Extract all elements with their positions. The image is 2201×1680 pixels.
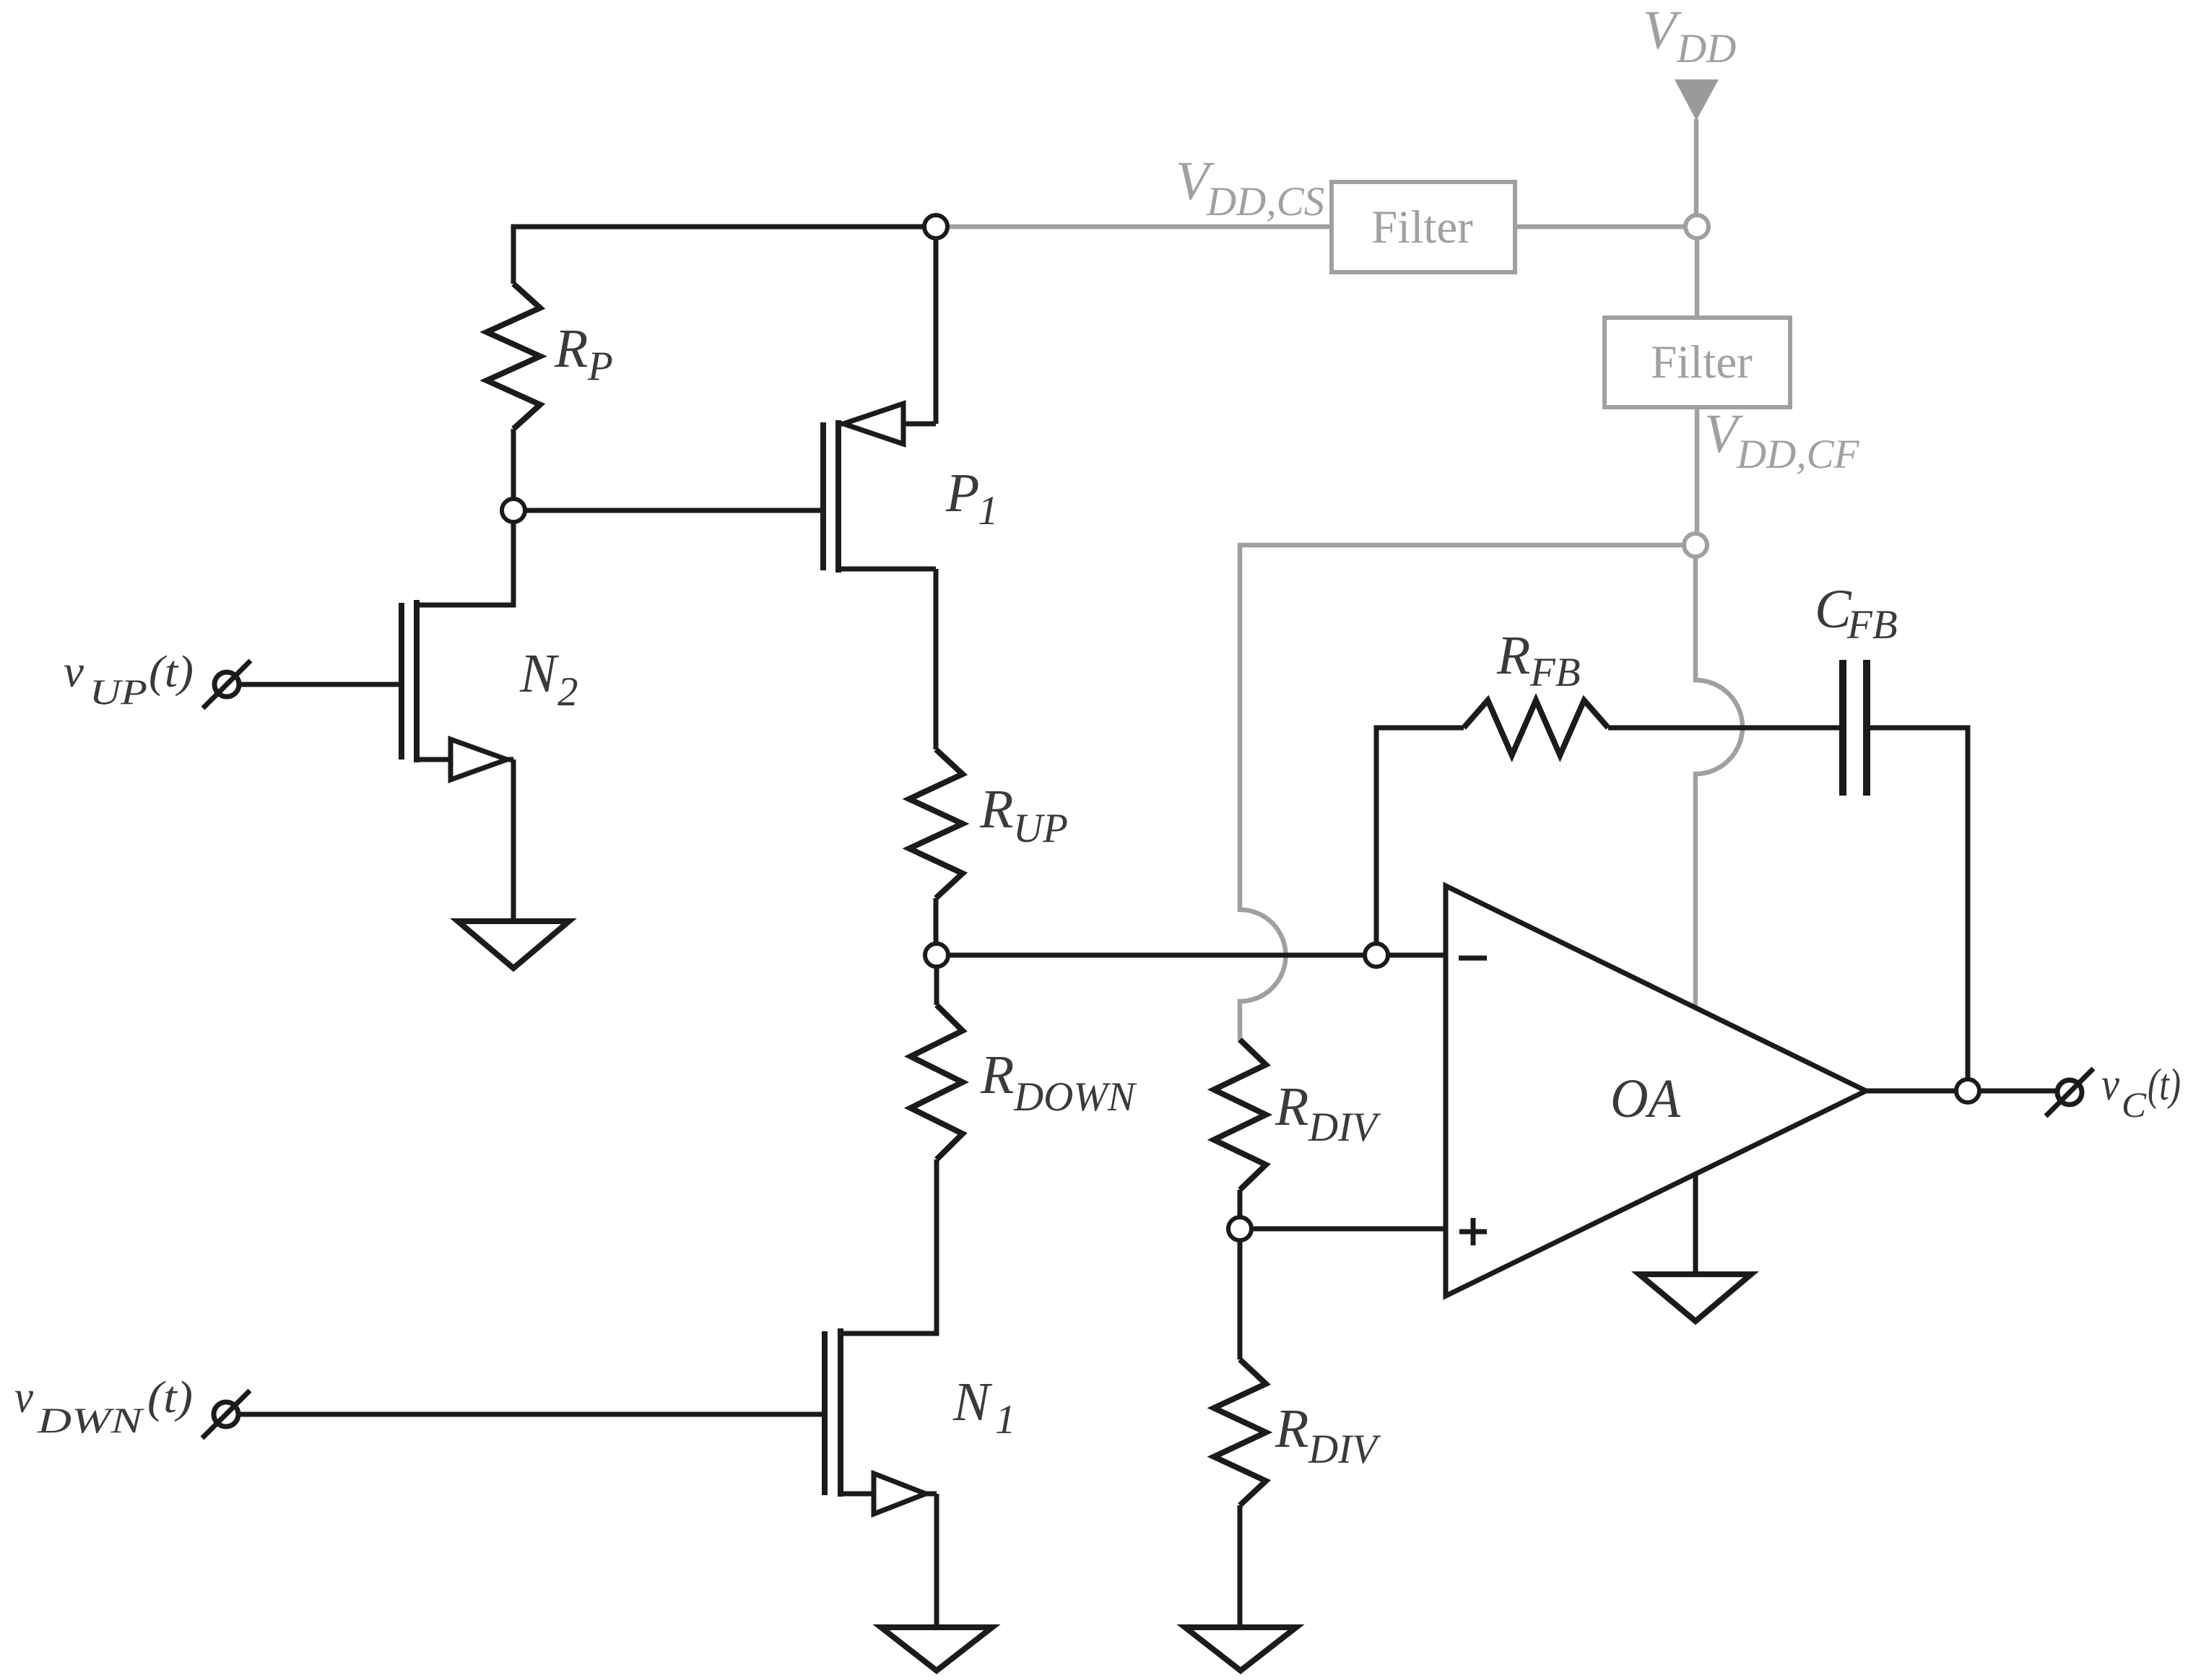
label P1 <box>945 463 999 534</box>
wire node C to node D to minus input <box>937 953 1453 958</box>
svg-text:OA: OA <box>1610 1069 1681 1129</box>
svg-text:UP: UP <box>1013 806 1068 851</box>
svg-text:DWN: DWN <box>37 1400 145 1440</box>
svg-text:P: P <box>945 463 979 523</box>
svg-text:v: v <box>2101 1058 2120 1110</box>
wire N2 gate input <box>239 682 399 687</box>
wire VDD stem <box>1694 119 1699 227</box>
wire RFB to CFB <box>1608 726 1839 731</box>
svg-text:N: N <box>519 643 560 704</box>
label RDIV upper <box>1275 1076 1381 1150</box>
wire node E to plus input <box>1240 1227 1453 1232</box>
svg-text:v: v <box>64 645 84 697</box>
label RUP <box>979 779 1068 851</box>
svg-text:R: R <box>554 318 588 379</box>
terminal vC <box>2046 1069 2093 1116</box>
svg-text:Filter: Filter <box>1651 336 1753 388</box>
ground RDIV <box>1185 1627 1296 1671</box>
filter box 1 <box>1332 182 1515 272</box>
wire RFB left leg from node D <box>1376 728 1464 955</box>
svg-text:(t): (t) <box>149 648 194 697</box>
transistor N1 <box>825 1328 937 1627</box>
ground N2 <box>458 921 569 968</box>
node H <box>1684 534 1707 557</box>
label VDD,CS <box>1176 151 1324 225</box>
label N1 <box>952 1372 1016 1442</box>
wire node B down and left to N2 drain <box>417 510 513 605</box>
resistor RDIV upper <box>1214 1040 1266 1190</box>
wire node G down to Filter2 <box>1695 227 1700 318</box>
svg-text:DD: DD <box>1676 26 1736 71</box>
wire Filter1 to node G <box>1515 225 1697 230</box>
ground op-amp <box>1639 1274 1751 1321</box>
wire node H down with hop over feedback wire to op-amp supply <box>1696 557 1742 1010</box>
svg-text:V: V <box>1643 0 1682 61</box>
wire P1 source up to node A <box>934 227 939 424</box>
capacitor CFB <box>1843 660 1867 796</box>
svg-text:R: R <box>980 1045 1014 1105</box>
svg-text:R: R <box>1275 1076 1308 1137</box>
wire VDD,CS from node A to Filter1 <box>947 225 1332 230</box>
label vDWN(t) <box>14 1371 193 1440</box>
terminal vUP <box>203 661 251 708</box>
label CFB <box>1815 579 1898 648</box>
label vC(t) <box>2101 1058 2181 1125</box>
resistor RFB <box>1464 700 1608 755</box>
wire RDIV upper bottom to node E <box>1238 1190 1243 1229</box>
node A <box>924 215 947 238</box>
svg-text:DD,CF: DD,CF <box>1736 432 1860 477</box>
node F <box>1956 1079 1979 1102</box>
svg-text:DOWN: DOWN <box>1013 1074 1137 1120</box>
svg-text:R: R <box>1496 625 1530 686</box>
svg-text:2: 2 <box>557 669 578 715</box>
node C <box>925 944 948 967</box>
wire CFB right to corner down to node F <box>1870 728 1968 1091</box>
svg-text:FB: FB <box>1846 602 1898 648</box>
node D <box>1365 944 1388 967</box>
svg-text:P: P <box>587 344 613 389</box>
svg-text:UP: UP <box>90 671 147 712</box>
label VDD,CF <box>1704 404 1860 477</box>
wire node H left then down with hop over minus wire <box>1240 545 1696 1041</box>
power VDD label <box>1643 0 1736 71</box>
svg-text:FB: FB <box>1529 650 1581 695</box>
wire op-amp output <box>1866 1089 2057 1094</box>
label vUP(t) <box>64 645 194 712</box>
svg-text:C: C <box>2122 1084 2147 1125</box>
wire RP bottom to node B <box>511 429 516 510</box>
resistor RDIV lower <box>1214 1229 1266 1627</box>
power VDD symbol (filled triangle) <box>1675 79 1719 121</box>
svg-text:DIV: DIV <box>1308 1105 1381 1150</box>
label RFB <box>1496 625 1581 695</box>
svg-text:(t): (t) <box>2148 1061 2181 1110</box>
svg-text:DD,CS: DD,CS <box>1206 179 1324 225</box>
svg-text:1: 1 <box>995 1397 1016 1442</box>
resistor RP <box>487 284 540 429</box>
wire RUP bottom to node C <box>934 898 939 955</box>
svg-text:Filter: Filter <box>1371 201 1473 253</box>
node G <box>1685 215 1709 238</box>
svg-text:R: R <box>979 779 1013 840</box>
svg-text:v: v <box>14 1371 34 1422</box>
label RDIV lower <box>1275 1398 1381 1472</box>
transistor N2 <box>401 600 513 921</box>
label N2 <box>519 643 578 715</box>
svg-text:DIV: DIV <box>1308 1427 1381 1472</box>
terminal vDWN <box>202 1390 250 1438</box>
op-amp plus sign <box>1459 1218 1487 1245</box>
wire P1 drain down to RUP <box>934 569 939 749</box>
wire top rail from RP corner to node A <box>513 227 936 284</box>
wire op-amp ground stem <box>1693 1172 1698 1274</box>
transistor P1 <box>823 404 936 573</box>
op-amp minus sign <box>1459 956 1487 961</box>
wire Filter2 down to node H <box>1695 407 1700 545</box>
node E <box>1228 1217 1251 1240</box>
label RP <box>554 318 613 389</box>
wire RDOWN bottom to N1 drain <box>841 1159 937 1333</box>
resistor RDOWN <box>911 955 963 1159</box>
svg-text:1: 1 <box>978 488 999 534</box>
svg-text:N: N <box>952 1372 993 1432</box>
filter box 2 <box>1605 318 1790 407</box>
svg-text:(t): (t) <box>147 1373 193 1422</box>
node B <box>502 499 525 522</box>
label RDOWN <box>980 1045 1137 1120</box>
ground N1 <box>881 1627 992 1671</box>
op-amp OA <box>1446 886 1866 1296</box>
svg-text:R: R <box>1275 1398 1308 1459</box>
resistor RUP <box>909 749 963 898</box>
wire N1 gate input <box>239 1412 822 1417</box>
wire node B to P1 gate <box>513 508 820 513</box>
